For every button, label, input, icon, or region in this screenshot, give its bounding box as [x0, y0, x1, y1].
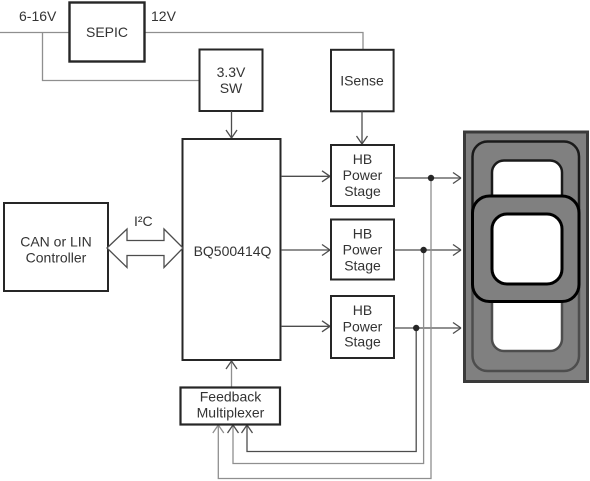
svg-text:HB: HB	[353, 302, 372, 318]
svg-text:Controller: Controller	[26, 250, 87, 266]
wire arrow feedback mux to BQ	[231, 361, 233, 387]
svg-text:SW: SW	[220, 80, 243, 96]
svg-text:SEPIC: SEPIC	[86, 24, 128, 40]
svg-text:HB: HB	[353, 226, 372, 242]
wire arrow HB3 to coil	[394, 323, 461, 334]
svg-text:Multiplexer: Multiplexer	[197, 405, 265, 421]
wire feedback from HB3 junction	[242, 328, 417, 452]
svg-text:CAN or LIN: CAN or LIN	[20, 234, 92, 250]
node junction dot HB3	[413, 325, 419, 331]
coil top ring	[473, 142, 580, 254]
wire arrow 3.3V SW to BQ500414Q	[226, 111, 237, 138]
svg-text:HB: HB	[353, 151, 372, 167]
wire feedback from HB1 junction	[213, 178, 431, 479]
block ISense	[331, 50, 394, 112]
wire I2C double arrow	[107, 213, 183, 268]
svg-text:3.3V: 3.3V	[217, 64, 246, 80]
wire 12V from SEPIC to ISense	[145, 33, 363, 50]
block Feedback Multiplexer	[181, 388, 281, 425]
node junction dot HB2	[420, 247, 426, 253]
svg-text:6-16V: 6-16V	[19, 8, 57, 24]
svg-text:Power: Power	[343, 318, 383, 334]
wire arrow ISense to HB1	[357, 111, 368, 144]
wire branch to 3.3V SW	[43, 33, 200, 81]
block SEPIC	[70, 3, 145, 62]
wire arrow BQ to HB3	[281, 321, 330, 332]
coil middle ring	[473, 196, 580, 302]
wire arrow HB1 to coil	[394, 173, 461, 184]
svg-text:I²C: I²C	[134, 213, 153, 229]
svg-text:ISense: ISense	[340, 73, 384, 89]
coil assembly outer plate	[465, 132, 588, 382]
svg-text:Stage: Stage	[344, 334, 381, 350]
wire arrow feedback HB2 into mux	[228, 425, 239, 433]
svg-text:12V: 12V	[151, 8, 177, 24]
wire arrow HB2 to coil	[394, 245, 461, 256]
wire arrow BQ to HB1	[281, 171, 330, 182]
svg-text:Power: Power	[343, 167, 383, 183]
svg-text:Feedback: Feedback	[200, 389, 262, 405]
block 3.3V SW	[200, 50, 263, 112]
svg-text:Power: Power	[343, 242, 383, 258]
wire 6-16V input	[0, 32, 69, 34]
block BQ500414Q	[183, 139, 281, 360]
block HB Power Stage 1	[331, 145, 394, 206]
wire arrow BQ to HB2	[281, 245, 330, 256]
block CAN or LIN Controller	[4, 203, 108, 291]
block HB Power Stage 3	[331, 296, 394, 358]
coil bottom ring	[473, 259, 580, 371]
wire feedback from HB2 junction	[233, 250, 424, 464]
svg-text:BQ500414Q: BQ500414Q	[194, 243, 272, 259]
node junction dot HB1	[428, 175, 434, 181]
svg-text:Stage: Stage	[344, 258, 381, 274]
svg-text:Stage: Stage	[344, 183, 381, 199]
block HB Power Stage 2	[331, 220, 394, 280]
